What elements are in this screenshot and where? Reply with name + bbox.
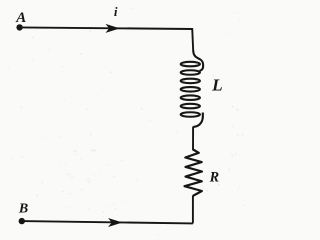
svg-text:L: L [211, 76, 223, 95]
svg-text:A: A [15, 10, 26, 26]
node A terminal dot [16, 24, 22, 30]
svg-text:R: R [209, 169, 219, 185]
current arrow i on top wire [106, 24, 120, 33]
wire between inductor and resistor [192, 127, 194, 151]
node B terminal dot [19, 218, 25, 224]
wire top from A to corner [20, 27, 193, 29]
resistor R zigzag [185, 150, 203, 196]
current arrow on bottom wire [108, 218, 122, 227]
svg-text:B: B [18, 202, 28, 217]
inductor L coil [181, 51, 203, 127]
wire bottom from corner to B [22, 221, 193, 223]
wire right vertical from corner to inductor [192, 28, 193, 51]
wire below resistor to bottom corner [192, 196, 194, 224]
svg-text:i: i [114, 4, 118, 19]
